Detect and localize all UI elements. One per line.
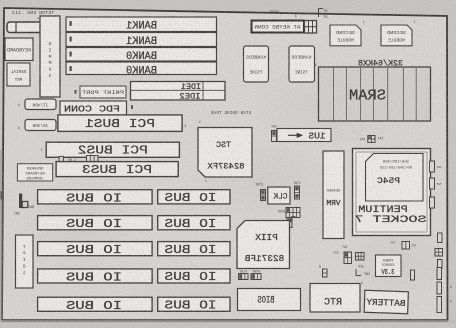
edge jumper grid 2x2 right xyxy=(435,249,443,257)
rear jumper block xyxy=(269,11,279,15)
SIMM BANK0 row 4 xyxy=(66,62,217,75)
header COM1 rounded xyxy=(25,99,56,110)
IDE connector block xyxy=(131,82,226,101)
flash jumper strip 1 xyxy=(239,270,247,274)
tick right of PCI BUS1 xyxy=(184,125,186,129)
edge slot D xyxy=(437,297,442,313)
edge slot upper 1 xyxy=(438,233,443,243)
pin1 mark near PIIX xyxy=(292,216,296,218)
SOCKET 7 label xyxy=(355,214,427,226)
jumper block 2x4 grid xyxy=(277,210,285,214)
frame tick left xyxy=(1,191,5,200)
label JFF xyxy=(358,266,364,270)
PCI BUS2 slot xyxy=(46,142,179,157)
FDC floppy connector xyxy=(60,101,127,116)
jumper near battery xyxy=(319,266,321,270)
IO BUS slot row 3 left xyxy=(38,242,153,256)
SU1 header box with arrow xyxy=(277,129,331,142)
clock generator CLK xyxy=(268,187,290,204)
cache SRAM bank xyxy=(319,67,431,121)
chipset U1 82437FX TSC xyxy=(198,128,252,178)
jumper grid 2x2 below SRAM xyxy=(360,138,366,142)
scan shadow left edge xyxy=(0,150,2,322)
socket side jumper slot 1 xyxy=(430,161,435,172)
SIMM BANK0 row 3 xyxy=(66,48,217,62)
32K/64KX8 label xyxy=(358,60,403,69)
edge slot A xyxy=(411,270,415,280)
IDE1 label xyxy=(181,83,201,92)
cache module chip B xyxy=(381,25,412,46)
jumper tail below grid xyxy=(287,218,292,228)
SRAM label xyxy=(349,88,386,105)
PCI BUS1 slot xyxy=(58,115,182,131)
tick left of PCI BUS2 xyxy=(40,149,42,153)
printer port header J2 xyxy=(80,86,126,98)
AT keyboard connector box xyxy=(252,21,305,33)
CPU P54C box xyxy=(366,154,424,202)
title text TETON ENG 113 xyxy=(12,10,54,16)
jumper J-TAG with label xyxy=(271,125,277,129)
coin cell BATTERY xyxy=(364,290,408,314)
jumper grid 2x2 bottom middle xyxy=(342,245,348,249)
note text near chipset xyxy=(210,112,251,116)
Socket 7 outer outline xyxy=(353,149,431,236)
IO BUS slot row 3 right xyxy=(158,242,230,256)
IO BUS slot row 2 right xyxy=(158,216,230,230)
IO BUS slot row 4 left xyxy=(38,269,153,283)
DRAM chip C xyxy=(244,46,269,82)
jumper pair near socket bottom xyxy=(402,242,410,250)
PENTIUM label xyxy=(358,204,408,216)
IO BUS slot row 5 left xyxy=(38,297,153,311)
connector J1 keyboard/mouse stacked ports xyxy=(7,22,42,33)
IO BUS slot row 2 left xyxy=(38,216,153,230)
BIOS flash chip xyxy=(238,289,301,311)
mouse/serial label box xyxy=(7,63,30,86)
VRM header xyxy=(323,151,344,239)
jumper block above PCI BUS3 xyxy=(59,156,63,162)
power source 3.3V regulator box xyxy=(376,255,402,277)
jumper grid 2x3 bottom middle xyxy=(356,253,365,261)
SIMM BANK1 row 2 xyxy=(66,33,217,47)
RTC real time clock chip xyxy=(310,284,360,313)
IO BUS slot row 1 left xyxy=(38,190,153,204)
SIMM BANK1 row 1 xyxy=(66,17,217,32)
socket side jumper slot 3 xyxy=(430,197,435,208)
jumper right of CLK xyxy=(293,181,301,185)
edge slot B xyxy=(437,268,442,280)
flash jumper strip 2 xyxy=(252,270,260,274)
header COM2 rounded xyxy=(25,120,56,131)
south bridge U2 82371FB PIIX xyxy=(237,221,290,269)
battery holder icon xyxy=(19,194,22,209)
PCI BUS3 slot xyxy=(56,162,178,177)
cache module chip A xyxy=(330,25,361,46)
SIMM socket vertical connector xyxy=(40,16,60,97)
IO BUS slot row 1 right xyxy=(158,190,230,204)
edge slot upper 2 xyxy=(438,260,443,269)
front panel IO vertical header xyxy=(16,235,34,288)
edge slot C xyxy=(437,282,442,294)
DRAM chip D xyxy=(289,46,315,82)
jumper left of CLK xyxy=(255,183,263,187)
board outline bottom emphasis xyxy=(2,319,448,321)
front panel header label box xyxy=(17,164,52,181)
bracket note 25 xyxy=(318,9,320,18)
IO BUS slot row 4 right xyxy=(158,269,230,283)
note mark SF xyxy=(295,15,297,19)
IO BUS slot row 5 right xyxy=(158,297,230,311)
socket side jumper slot 2 xyxy=(430,178,435,189)
photocopy mottling xyxy=(40,20,180,100)
keyboard connector label box xyxy=(5,38,33,61)
IDE2 label xyxy=(179,93,200,102)
